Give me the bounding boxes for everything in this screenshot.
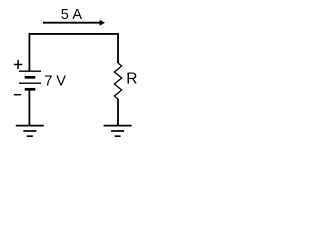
battery plus sign [14,60,22,69]
current arrow [43,20,105,26]
wire right vertical (top node to resistor) [117,33,119,63]
wire battery - to ground [28,89,30,125]
battery V1 7 V [19,71,41,89]
ground (right) [104,126,132,137]
ground (left) [16,126,44,137]
svg-text:7V: 7V [44,74,66,90]
wire left vertical (top node to battery +) [28,33,30,71]
svg-text:R: R [126,71,137,88]
svg-text:5A: 5A [61,7,83,23]
battery minus sign [14,94,21,96]
wire top horizontal [29,33,119,35]
resistor R [114,63,121,99]
wire resistor to ground [117,99,119,126]
